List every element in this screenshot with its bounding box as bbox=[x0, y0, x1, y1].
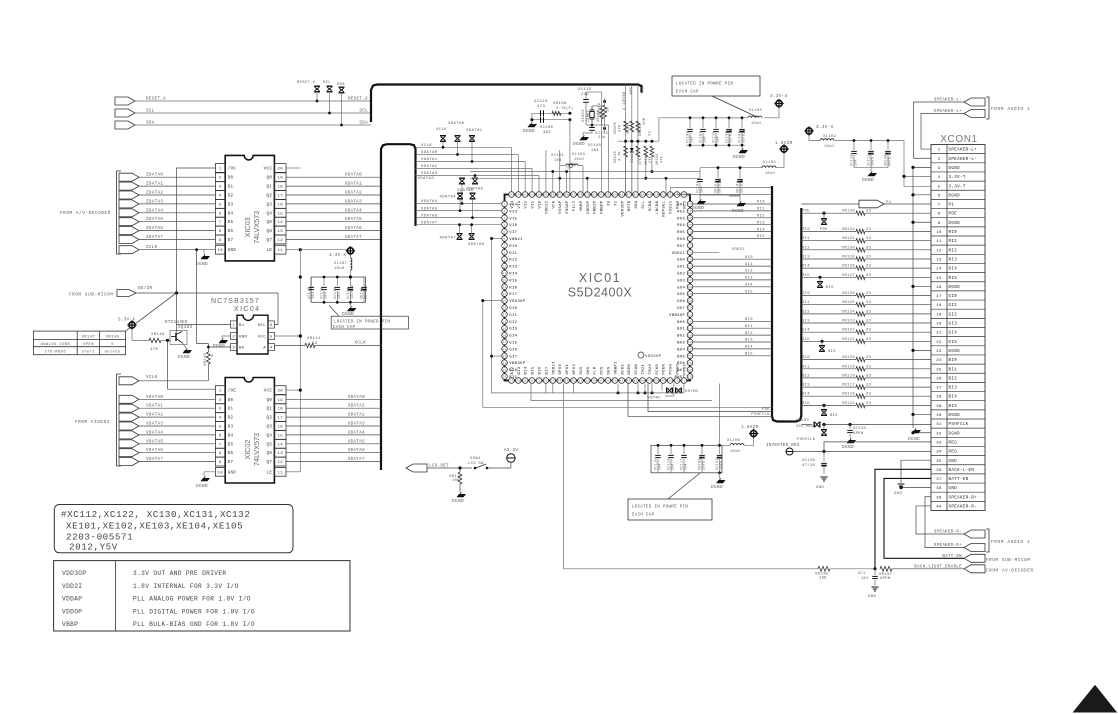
svg-text:Q1: Q1 bbox=[266, 186, 272, 190]
svg-text:XC101: XC101 bbox=[551, 154, 565, 158]
svg-text:BO3: BO3 bbox=[677, 342, 685, 346]
svg-text:10V6.3: 10V6.3 bbox=[871, 152, 875, 166]
svg-text:69: 69 bbox=[688, 265, 692, 268]
svg-text:12: 12 bbox=[502, 279, 506, 282]
svg-text:GPO2: GPO2 bbox=[573, 363, 577, 374]
wire PSHFCLK from chip bbox=[628, 384, 772, 417]
svg-text:65: 65 bbox=[688, 293, 692, 296]
svg-text:9: 9 bbox=[219, 239, 222, 243]
svg-text:84: 84 bbox=[647, 194, 651, 197]
svg-text:FLD: FLD bbox=[594, 366, 598, 374]
svg-text:3.3V-T: 3.3V-T bbox=[949, 185, 966, 189]
svg-text:33: 33 bbox=[551, 380, 555, 383]
svg-text:473: 473 bbox=[537, 105, 546, 109]
svg-text:33: 33 bbox=[649, 131, 653, 136]
svg-text:XR124: XR124 bbox=[842, 310, 856, 314]
svg-text:2: 2 bbox=[503, 210, 505, 213]
svg-text:Q5: Q5 bbox=[266, 221, 272, 225]
svg-text:XR130: XR130 bbox=[842, 210, 856, 214]
wire SEL to OE/ZR bbox=[274, 293, 278, 325]
svg-text:XC136: XC136 bbox=[802, 459, 816, 463]
wire BI5 chip to bus bbox=[693, 355, 772, 357]
svg-text:17: 17 bbox=[277, 417, 283, 421]
svg-text:85: 85 bbox=[640, 194, 644, 197]
svg-text:XC125: XC125 bbox=[578, 88, 592, 92]
svg-text:13: 13 bbox=[277, 230, 283, 234]
note box LOCATED IN POWRE PIN bottom bbox=[668, 473, 700, 499]
wire SPEAKER-R- pin40 bbox=[916, 506, 964, 534]
svg-text:BO4: BO4 bbox=[677, 348, 685, 352]
svg-text:76: 76 bbox=[688, 217, 692, 220]
wire ZDATA5 bbox=[139, 221, 215, 223]
svg-text:104: 104 bbox=[684, 463, 688, 470]
svg-text:XR134: XR134 bbox=[796, 419, 810, 423]
svg-text:VI2: VI2 bbox=[525, 200, 529, 208]
svg-text:17: 17 bbox=[502, 314, 506, 317]
svg-text:XR143: XR143 bbox=[627, 122, 631, 134]
bracket FROM AUDIO 1 top bbox=[986, 97, 989, 119]
bead HSYNC bbox=[667, 388, 673, 394]
svg-text:XE101,XE102,XE103,XE104,XE105: XE101,XE102,XE103,XE104,XE105 bbox=[66, 521, 243, 532]
svg-text:18: 18 bbox=[277, 186, 283, 190]
input arrow ZDATA0 bbox=[119, 173, 139, 181]
svg-text:SDA: SDA bbox=[337, 83, 345, 87]
svg-text:PHSO: PHSO bbox=[677, 363, 681, 374]
svg-text:GI0: GI0 bbox=[802, 292, 810, 296]
svg-text:3.3V-X: 3.3V-X bbox=[816, 125, 834, 130]
svg-text:RI3: RI3 bbox=[949, 258, 958, 262]
wire PDE from chip bbox=[648, 384, 772, 412]
svg-text:XR129: XR129 bbox=[842, 256, 856, 260]
page corner triangle bbox=[1073, 685, 1118, 713]
wire bottom rail 3 bbox=[483, 301, 772, 408]
wire 3.3V-T to XCON1 bbox=[904, 141, 931, 177]
svg-text:36: 36 bbox=[571, 380, 575, 383]
wire ZDATA3 bbox=[139, 203, 215, 205]
svg-text:19: 19 bbox=[277, 177, 283, 181]
wire XDATA5 from XIC03 bbox=[286, 221, 381, 223]
svg-text:74LVX573: 74LVX573 bbox=[252, 211, 261, 244]
svg-text:10uH: 10uH bbox=[824, 145, 834, 149]
wire SCL bbox=[135, 112, 371, 114]
svg-text:82: 82 bbox=[661, 194, 665, 197]
svg-text:41: 41 bbox=[606, 380, 610, 383]
svg-text:BACK_LIGHT_ENABLE: BACK_LIGHT_ENABLE bbox=[914, 565, 962, 569]
svg-text:DGND: DGND bbox=[949, 167, 961, 171]
svg-text:39: 39 bbox=[936, 496, 942, 500]
svg-text:5: 5 bbox=[270, 336, 273, 340]
svg-text:RESET_X: RESET_X bbox=[621, 92, 625, 111]
output arrow LCD-DET bbox=[406, 464, 427, 472]
svg-text:RO7: RO7 bbox=[677, 245, 685, 249]
wire GND pin38 bbox=[901, 487, 931, 489]
ground DGND osc bbox=[528, 124, 538, 127]
svg-text:19: 19 bbox=[277, 399, 283, 403]
svg-text:SCL: SCL bbox=[323, 81, 331, 85]
IC XIC03 74LVX573 bbox=[225, 155, 274, 261]
svg-text:RI2: RI2 bbox=[757, 215, 765, 219]
ground GND XC136 bbox=[821, 477, 828, 481]
svg-text:FROM AV-DECODER: FROM AV-DECODER bbox=[986, 569, 1034, 574]
wire XDATA0 from XIC02 bbox=[286, 398, 381, 400]
svg-text:GO0: GO0 bbox=[677, 259, 685, 263]
svg-text:72: 72 bbox=[688, 245, 692, 248]
svg-text:D3: D3 bbox=[228, 426, 234, 430]
svg-text:TM21: TM21 bbox=[642, 363, 646, 374]
svg-text:PLL ANALOG POWER FOR 1.8V I/O: PLL ANALOG POWER FOR 1.8V I/O bbox=[133, 596, 251, 603]
svg-text:RI6: RI6 bbox=[509, 286, 517, 290]
svg-text:XC1: XC1 bbox=[858, 572, 866, 576]
svg-text:DGND: DGND bbox=[523, 129, 535, 134]
svg-text:48: 48 bbox=[654, 380, 658, 383]
svg-text:XR126: XR126 bbox=[842, 292, 856, 296]
svg-text:DGND: DGND bbox=[949, 414, 961, 418]
wire bottom pin drops bbox=[545, 384, 547, 393]
wire REG pin33 bbox=[824, 442, 931, 452]
svg-text:PDE: PDE bbox=[802, 210, 810, 214]
svg-text:PLL BULK-BIAS GND FOR 1.8V I/O: PLL BULK-BIAS GND FOR 1.8V I/O bbox=[133, 621, 255, 628]
svg-text:RI3: RI3 bbox=[757, 221, 765, 225]
svg-text:DGND: DGND bbox=[692, 206, 704, 211]
svg-text:23: 23 bbox=[502, 355, 506, 358]
svg-text:VDD2I: VDD2I bbox=[732, 248, 745, 252]
wire XDATA5 from XIC02 bbox=[286, 443, 381, 445]
svg-text:FROM VIDEO2: FROM VIDEO2 bbox=[75, 420, 110, 425]
svg-text:104: 104 bbox=[700, 186, 704, 193]
XIC01 bottom pins bbox=[509, 378, 687, 384]
svg-text:17: 17 bbox=[277, 195, 283, 199]
XIC01 top pins bbox=[509, 192, 687, 198]
svg-text:GI1: GI1 bbox=[802, 301, 810, 305]
svg-text:VCC: VCC bbox=[264, 168, 273, 172]
svg-text:24: 24 bbox=[936, 359, 942, 363]
svg-text:VCLK: VCLK bbox=[146, 376, 158, 380]
svg-text:VDD2I: VDD2I bbox=[552, 361, 556, 374]
svg-text:1.8VZR: 1.8VZR bbox=[741, 425, 759, 430]
svg-text:VDDAP: VDDAP bbox=[62, 596, 82, 603]
wire XDATA0 to XIC01 bbox=[416, 154, 519, 156]
svg-text:BO5: BO5 bbox=[677, 355, 685, 359]
svg-text:Q3: Q3 bbox=[266, 203, 272, 207]
svg-text:104: 104 bbox=[325, 292, 329, 299]
wire XIC03 pin11 LE bbox=[286, 249, 300, 251]
svg-text:88: 88 bbox=[620, 194, 624, 197]
svg-text:DGND: DGND bbox=[732, 209, 744, 214]
svg-text:XDATA3: XDATA3 bbox=[421, 172, 438, 176]
svg-text:D0: D0 bbox=[228, 177, 234, 181]
svg-text:10/6.3: 10/6.3 bbox=[718, 179, 722, 193]
svg-text:12: 12 bbox=[277, 461, 283, 465]
svg-text:38: 38 bbox=[936, 487, 942, 491]
svg-text:XDATA2: XDATA2 bbox=[421, 165, 438, 169]
svg-text:4.7K(F): 4.7K(F) bbox=[556, 106, 574, 111]
svg-text:VBB3OP: VBB3OP bbox=[669, 314, 685, 318]
wire XIC04 B0 bbox=[208, 346, 230, 348]
wire RESET_X bbox=[135, 100, 371, 102]
wire SCL drop to XIC01 bbox=[637, 85, 639, 194]
svg-text:XL107: XL107 bbox=[334, 262, 347, 266]
svg-text:Q0: Q0 bbox=[266, 399, 272, 403]
svg-text:22: 22 bbox=[502, 348, 506, 351]
wire RC1 to bus2 bbox=[677, 193, 772, 194]
svg-text:DGND: DGND bbox=[949, 286, 961, 290]
svg-text:DGND: DGND bbox=[949, 350, 961, 354]
wire GI1 row bbox=[801, 304, 856, 306]
svg-text:25: 25 bbox=[936, 368, 942, 372]
svg-text:63: 63 bbox=[688, 307, 692, 310]
svg-text:30: 30 bbox=[936, 414, 942, 418]
input arrow RESET_X bbox=[115, 97, 135, 105]
svg-text:RI5: RI5 bbox=[802, 274, 810, 278]
svg-text:GO3: GO3 bbox=[677, 279, 685, 283]
svg-text:XL104: XL104 bbox=[763, 161, 777, 165]
svg-text:101: 101 bbox=[861, 577, 869, 581]
svg-text:Q0: Q0 bbox=[266, 177, 272, 181]
bracket FROM AUDIO 1 bottom bbox=[986, 529, 989, 552]
svg-text:16: 16 bbox=[277, 203, 283, 207]
svg-text:XR144: XR144 bbox=[639, 124, 643, 136]
wire VDATA2 bbox=[139, 416, 215, 418]
svg-text:SCL: SCL bbox=[642, 200, 646, 208]
svg-text:104: 104 bbox=[658, 463, 662, 470]
svg-text:20: 20 bbox=[277, 168, 283, 172]
ground DGND cap bank bbox=[349, 302, 351, 306]
svg-text:3: 3 bbox=[938, 167, 941, 171]
wire B1 to /OC net bbox=[177, 293, 231, 325]
svg-text:392: 392 bbox=[543, 131, 551, 135]
svg-text:S5D2400X: S5D2400X bbox=[568, 286, 633, 300]
wire XQ103 collector bbox=[176, 325, 178, 333]
svg-text:RI5: RI5 bbox=[509, 279, 517, 283]
svg-text:BI4: BI4 bbox=[525, 366, 529, 374]
wire BI2 chip to bus bbox=[693, 334, 772, 336]
svg-text:8: 8 bbox=[219, 230, 222, 234]
svg-text:Q6: Q6 bbox=[266, 230, 272, 234]
svg-text:38: 38 bbox=[585, 380, 589, 383]
svg-text:BI5: BI5 bbox=[830, 414, 838, 418]
input arrow BATT-EN bbox=[964, 554, 985, 562]
svg-text:GI3: GI3 bbox=[802, 320, 810, 324]
svg-text:XDATA7: XDATA7 bbox=[348, 458, 365, 462]
svg-text:FROM A/V-DECODER: FROM A/V-DECODER bbox=[60, 211, 111, 216]
svg-text:XDATA6: XDATA6 bbox=[457, 189, 474, 193]
svg-text:SPEAKER-R+: SPEAKER-R+ bbox=[934, 544, 962, 548]
wire XDATA1 from XIC03 bbox=[286, 185, 381, 187]
svg-text:XIC04: XIC04 bbox=[234, 306, 260, 313]
svg-text:94: 94 bbox=[578, 194, 582, 197]
input arrow ZDATA3 bbox=[119, 200, 139, 208]
wire RI2 row bbox=[801, 249, 856, 251]
svg-text:B1: B1 bbox=[239, 324, 245, 328]
svg-text:VI1: VI1 bbox=[532, 200, 536, 208]
svg-text:PDEN: PDEN bbox=[663, 363, 667, 374]
wire XDATA4 to XIC01 bbox=[416, 203, 502, 205]
svg-text:D1: D1 bbox=[228, 186, 234, 190]
svg-text:XR147: XR147 bbox=[82, 336, 96, 340]
svg-text:BI5: BI5 bbox=[949, 405, 958, 409]
wire LCD-DET bbox=[427, 467, 472, 469]
resistor XR137 OPEN bbox=[880, 566, 892, 571]
svg-text:D6: D6 bbox=[228, 452, 234, 456]
wire XDATA3 to XIC01 bbox=[416, 175, 540, 177]
svg-text:XR127: XR127 bbox=[842, 274, 855, 278]
svg-text:83: 83 bbox=[654, 194, 658, 197]
capacitor XC108 392 bbox=[540, 117, 542, 123]
svg-text:10/6.3: 10/6.3 bbox=[740, 179, 744, 193]
bus trunk RESET/SCL/SDA bbox=[371, 85, 642, 123]
svg-text:D2: D2 bbox=[228, 417, 234, 421]
wire OE/ZR bbox=[136, 292, 278, 294]
svg-text:RO5: RO5 bbox=[677, 231, 685, 235]
svg-text:DGND: DGND bbox=[213, 344, 225, 349]
svg-text:BI4: BI4 bbox=[949, 396, 958, 400]
svg-text:BACK-L-EN: BACK-L-EN bbox=[949, 469, 975, 473]
svg-text:61: 61 bbox=[688, 321, 692, 324]
wire BI1 chip to bus bbox=[693, 327, 772, 329]
svg-text:BI0: BI0 bbox=[949, 359, 958, 363]
svg-text:99: 99 bbox=[544, 194, 548, 197]
svg-text:67: 67 bbox=[688, 279, 692, 282]
svg-text:GO6: GO6 bbox=[677, 300, 685, 304]
wire SDA drop to XIC01 bbox=[631, 85, 633, 194]
svg-text:102: 102 bbox=[522, 194, 528, 197]
svg-text:55: 55 bbox=[688, 362, 692, 365]
svg-text:44: 44 bbox=[627, 380, 631, 383]
wire osc drop bbox=[569, 120, 571, 193]
svg-text:60: 60 bbox=[688, 327, 692, 330]
svg-text:BI0: BI0 bbox=[802, 356, 810, 360]
svg-text:3.3V-X: 3.3V-X bbox=[770, 94, 788, 99]
svg-text:104: 104 bbox=[508, 194, 514, 197]
svg-text:XDATA0: XDATA0 bbox=[421, 151, 438, 155]
svg-text:75: 75 bbox=[688, 224, 692, 227]
svg-text:56: 56 bbox=[688, 355, 692, 358]
svg-text:28: 28 bbox=[516, 380, 520, 383]
wire XDATA1 from XIC02 bbox=[286, 407, 381, 409]
resistor XR138 10K backlight bbox=[818, 566, 830, 571]
svg-text:GI4: GI4 bbox=[802, 329, 810, 333]
svg-text:BI7: BI7 bbox=[545, 366, 549, 374]
wire VSYNC route bbox=[665, 395, 674, 397]
wire BATT-EN pin37 bbox=[884, 478, 964, 558]
svg-text:GI2: GI2 bbox=[949, 313, 958, 317]
svg-text:RI0: RI0 bbox=[802, 228, 810, 232]
svg-text:2: 2 bbox=[219, 399, 222, 403]
input arrow VDATA5 bbox=[119, 440, 139, 448]
svg-text:DGND: DGND bbox=[842, 445, 854, 450]
wire SPEAKER-L- to XCON1 pin2 bbox=[914, 102, 965, 158]
svg-text:GO4: GO4 bbox=[677, 286, 685, 290]
svg-text:XR110: XR110 bbox=[614, 151, 618, 163]
svg-text:FROM AUDIO 1: FROM AUDIO 1 bbox=[991, 540, 1030, 545]
wire XDATA6 from XIC02 bbox=[286, 452, 381, 454]
wire table pointer bbox=[126, 293, 177, 331]
svg-text:RI4: RI4 bbox=[757, 228, 765, 232]
XIC01 left pins bbox=[502, 201, 508, 379]
wire PSHFCLK row bbox=[801, 424, 812, 426]
svg-text:Q7: Q7 bbox=[266, 239, 272, 243]
svg-text:19: 19 bbox=[502, 327, 506, 330]
wire GI0 row bbox=[801, 295, 856, 297]
svg-text:3: 3 bbox=[219, 186, 222, 190]
svg-text:100: 100 bbox=[536, 194, 542, 197]
svg-text:RI5: RI5 bbox=[826, 286, 834, 290]
svg-text:10uH: 10uH bbox=[751, 122, 761, 126]
wire RI0 row bbox=[801, 231, 856, 233]
svg-text:SPEAKER-R-: SPEAKER-R- bbox=[934, 531, 962, 535]
capacitor bank XC112 XC122 XC131 XE101 bbox=[311, 277, 365, 302]
svg-text:RI2: RI2 bbox=[802, 246, 810, 250]
svg-text:GI2: GI2 bbox=[509, 321, 517, 325]
svg-text:10uH: 10uH bbox=[574, 158, 584, 162]
svg-text:A: A bbox=[263, 347, 266, 351]
svg-text:1: 1 bbox=[232, 324, 235, 328]
svg-text:Q2: Q2 bbox=[266, 195, 272, 199]
svg-text:XR116: XR116 bbox=[842, 393, 856, 397]
svg-text:GO2: GO2 bbox=[677, 273, 685, 277]
wire REG pin34 bbox=[793, 451, 931, 453]
svg-text:GI0: GI0 bbox=[509, 307, 517, 311]
svg-text:PSHFCLK: PSHFCLK bbox=[949, 423, 969, 427]
svg-text:VDD3OP: VDD3OP bbox=[621, 200, 625, 216]
wire BI5 row bbox=[801, 404, 856, 406]
svg-text:16: 16 bbox=[277, 426, 283, 430]
svg-text:LOCATED IN POWRE PIN: LOCATED IN POWRE PIN bbox=[632, 506, 688, 510]
input arrow FROM SUB-MICOM OE/ZR bbox=[117, 290, 136, 297]
svg-text:XC110: XC110 bbox=[534, 100, 548, 104]
svg-text:delete: delete bbox=[105, 349, 121, 354]
capacitor XC137 101 bbox=[874, 569, 876, 575]
wire RI5 row bbox=[801, 276, 856, 278]
svg-text:5: 5 bbox=[503, 231, 505, 234]
svg-text:21: 21 bbox=[936, 332, 942, 336]
svg-text:31: 31 bbox=[936, 423, 942, 427]
svg-text:BO2: BO2 bbox=[677, 335, 685, 339]
svg-text:SPEAKER-L-: SPEAKER-L- bbox=[934, 99, 962, 103]
svg-text:XDATA0: XDATA0 bbox=[448, 122, 465, 126]
svg-text:66: 66 bbox=[688, 286, 692, 289]
svg-text:XC108: XC108 bbox=[540, 126, 554, 130]
wire rail 171 bbox=[470, 171, 700, 173]
wire SDA bbox=[135, 124, 371, 126]
wire XIC03 pin10 GND to DGND bbox=[204, 250, 215, 254]
ground DGND bank4 bbox=[719, 473, 721, 478]
svg-text:RESET_X: RESET_X bbox=[348, 98, 368, 102]
wire LE vertical net bbox=[299, 250, 301, 473]
svg-text:96: 96 bbox=[565, 194, 569, 197]
svg-text:62: 62 bbox=[688, 314, 692, 317]
svg-text:27: 27 bbox=[936, 387, 942, 391]
svg-text:FILT: FILT bbox=[573, 200, 577, 211]
svg-text:64: 64 bbox=[688, 300, 692, 303]
svg-text:37: 37 bbox=[936, 478, 942, 482]
svg-text:0: 0 bbox=[111, 343, 114, 347]
svg-text:24: 24 bbox=[502, 362, 506, 365]
svg-text:SPEAKER-L-: SPEAKER-L- bbox=[949, 158, 978, 162]
wire VDD rail drop bbox=[719, 384, 721, 446]
svg-text:XDATA4: XDATA4 bbox=[345, 209, 362, 213]
bead BI5 test bbox=[822, 404, 825, 407]
svg-text:31: 31 bbox=[537, 380, 541, 383]
wire VDATA7 bbox=[139, 461, 215, 463]
svg-text:XCLK: XCLK bbox=[436, 128, 447, 132]
svg-text:10K: 10K bbox=[452, 479, 460, 483]
svg-text:VBBP: VBBP bbox=[62, 621, 78, 628]
svg-text:34: 34 bbox=[558, 380, 562, 383]
svg-text:27: 27 bbox=[509, 380, 513, 383]
svg-text:10K: 10K bbox=[643, 117, 647, 125]
note box power rails legend bbox=[54, 561, 350, 631]
